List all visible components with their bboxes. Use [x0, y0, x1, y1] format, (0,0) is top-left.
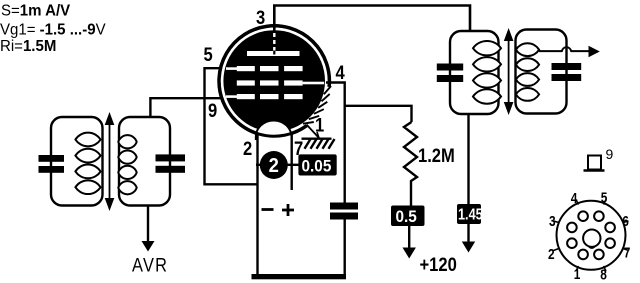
wire grid return to battery minus: [205, 98, 258, 184]
svg-text:2: 2: [548, 246, 555, 262]
wire output with hop: [539, 47, 589, 51]
inductor L2 loops: [118, 135, 136, 194]
svg-text:2: 2: [269, 155, 279, 177]
tube V1 envelope: [219, 26, 329, 136]
socket pins: [567, 211, 615, 259]
wire cathode right lead / battery plus: [291, 133, 293, 190]
inductor L1 loops: [75, 133, 100, 194]
box 1.45: [457, 204, 481, 224]
wire node2 to 0.05 box: [288, 164, 300, 166]
wire pin 4: [326, 83, 345, 203]
tube pin3 lead: [273, 24, 276, 32]
svg-text:4: 4: [571, 190, 578, 206]
svg-text:5: 5: [204, 44, 213, 66]
wire cathode left lead / battery minus: [256, 133, 258, 275]
capacitor C2 on T1 right tank: [156, 154, 186, 172]
svg-text:9: 9: [208, 100, 217, 122]
text S=1mA/V: [1, 2, 71, 19]
arrow +120 left: [403, 248, 416, 259]
tube metallization ticks pin1: [303, 86, 331, 124]
transformer T1 left tank rect: [51, 117, 103, 206]
arrow output: [589, 46, 600, 57]
svg-text:0.5: 0.5: [396, 209, 417, 227]
socket outline: [557, 201, 626, 270]
wire node2 stub: [256, 164, 262, 166]
svg-text:1: 1: [315, 114, 324, 136]
pin label 7: [294, 138, 303, 160]
battery plus sign: [282, 204, 294, 216]
svg-text:S=1m A/V: S=1m A/V: [1, 2, 71, 19]
T2 tuning arrow: [504, 28, 514, 115]
svg-text:6: 6: [622, 213, 629, 229]
text +120: [420, 254, 457, 276]
wire AVR from T1 bottom: [147, 206, 149, 244]
arrow 1.45 down: [462, 242, 475, 253]
svg-text:1.2M: 1.2M: [418, 145, 455, 167]
T2 right tank rect: [516, 30, 567, 114]
svg-text:1: 1: [574, 266, 581, 282]
battery bottom plate: [252, 274, 347, 279]
wire below 0.5: [408, 226, 410, 249]
text Ri=1.5M: [0, 38, 56, 55]
capacitor C1 on T1 left tank: [39, 155, 65, 173]
svg-text:+120: +120: [420, 254, 457, 276]
pin label 2: [243, 138, 252, 160]
text 1.2M: [418, 145, 455, 167]
wire below 1.45: [467, 224, 469, 243]
box 0.5: [391, 206, 425, 227]
svg-text:7: 7: [624, 244, 631, 260]
pin1 lead to chassis: [307, 125, 320, 139]
pin label 1: [315, 114, 324, 136]
svg-text:2: 2: [243, 138, 252, 160]
pin label 5: [204, 44, 213, 66]
T1 tuning arrow: [105, 112, 115, 211]
wire pin4 branch to resistor: [345, 106, 412, 122]
svg-text:AVR: AVR: [132, 254, 168, 276]
arrow AVR: [142, 241, 155, 252]
svg-text:4: 4: [336, 62, 345, 84]
svg-text:Vg1= -1.5 ...-9V: Vg1= -1.5 ...-9V: [0, 21, 106, 38]
svg-text:9: 9: [606, 146, 614, 162]
ground chassis hatch: [302, 139, 335, 149]
inductor L3 loops: [473, 41, 501, 104]
tube grid row 3: [226, 94, 303, 99]
socket pin numbers: [548, 189, 630, 282]
tube anode bar: [247, 51, 300, 56]
node 2 circle: [260, 151, 288, 179]
top cap symbol: [584, 156, 605, 171]
tube grid row 1: [226, 66, 303, 71]
T1 right tank rect: [119, 117, 170, 206]
socket ticks: [554, 200, 629, 272]
capacitor C4 on T2 left tank: [437, 64, 463, 83]
capacitor C3 on B+ branch: [330, 203, 358, 220]
inductor L4 loops: [516, 43, 539, 101]
svg-text:1.45: 1.45: [458, 206, 483, 223]
wire pin5/pin9 bracket: [150, 68, 228, 117]
wire T2 left tank bottom: [467, 114, 469, 204]
capacitor 0.05 value box: [298, 154, 336, 175]
text Vg1=-1.5...-9V: [0, 21, 106, 38]
transformer T2 left tank rect: [450, 31, 499, 114]
tube cathode filament dome: [256, 121, 292, 143]
svg-text:5: 5: [601, 189, 608, 205]
svg-text:Ri=1.5M: Ri=1.5M: [0, 38, 56, 55]
capacitor C5 on T2 right tank: [552, 63, 582, 81]
tube anode lead white dashes: [273, 33, 275, 51]
pin label 9: [208, 100, 217, 122]
wire B+ branch below capacitor: [344, 220, 346, 277]
svg-text:8: 8: [600, 266, 607, 282]
text AVR: [132, 254, 168, 276]
svg-text:3: 3: [549, 213, 556, 229]
pin label 4: [336, 62, 345, 84]
tube envelope ring redraw with metallization gap: [219, 26, 329, 136]
socket center key: [583, 230, 600, 247]
pin label 3: [256, 7, 265, 29]
svg-text:0.05: 0.05: [302, 158, 332, 176]
tube V1 inner fill: [223, 30, 325, 132]
wire top rail from pin3 to T2: [274, 6, 470, 32]
resistor R1 1.2M: [404, 122, 417, 206]
battery minus sign: [262, 208, 274, 211]
tube grid row 2: [237, 80, 324, 85]
